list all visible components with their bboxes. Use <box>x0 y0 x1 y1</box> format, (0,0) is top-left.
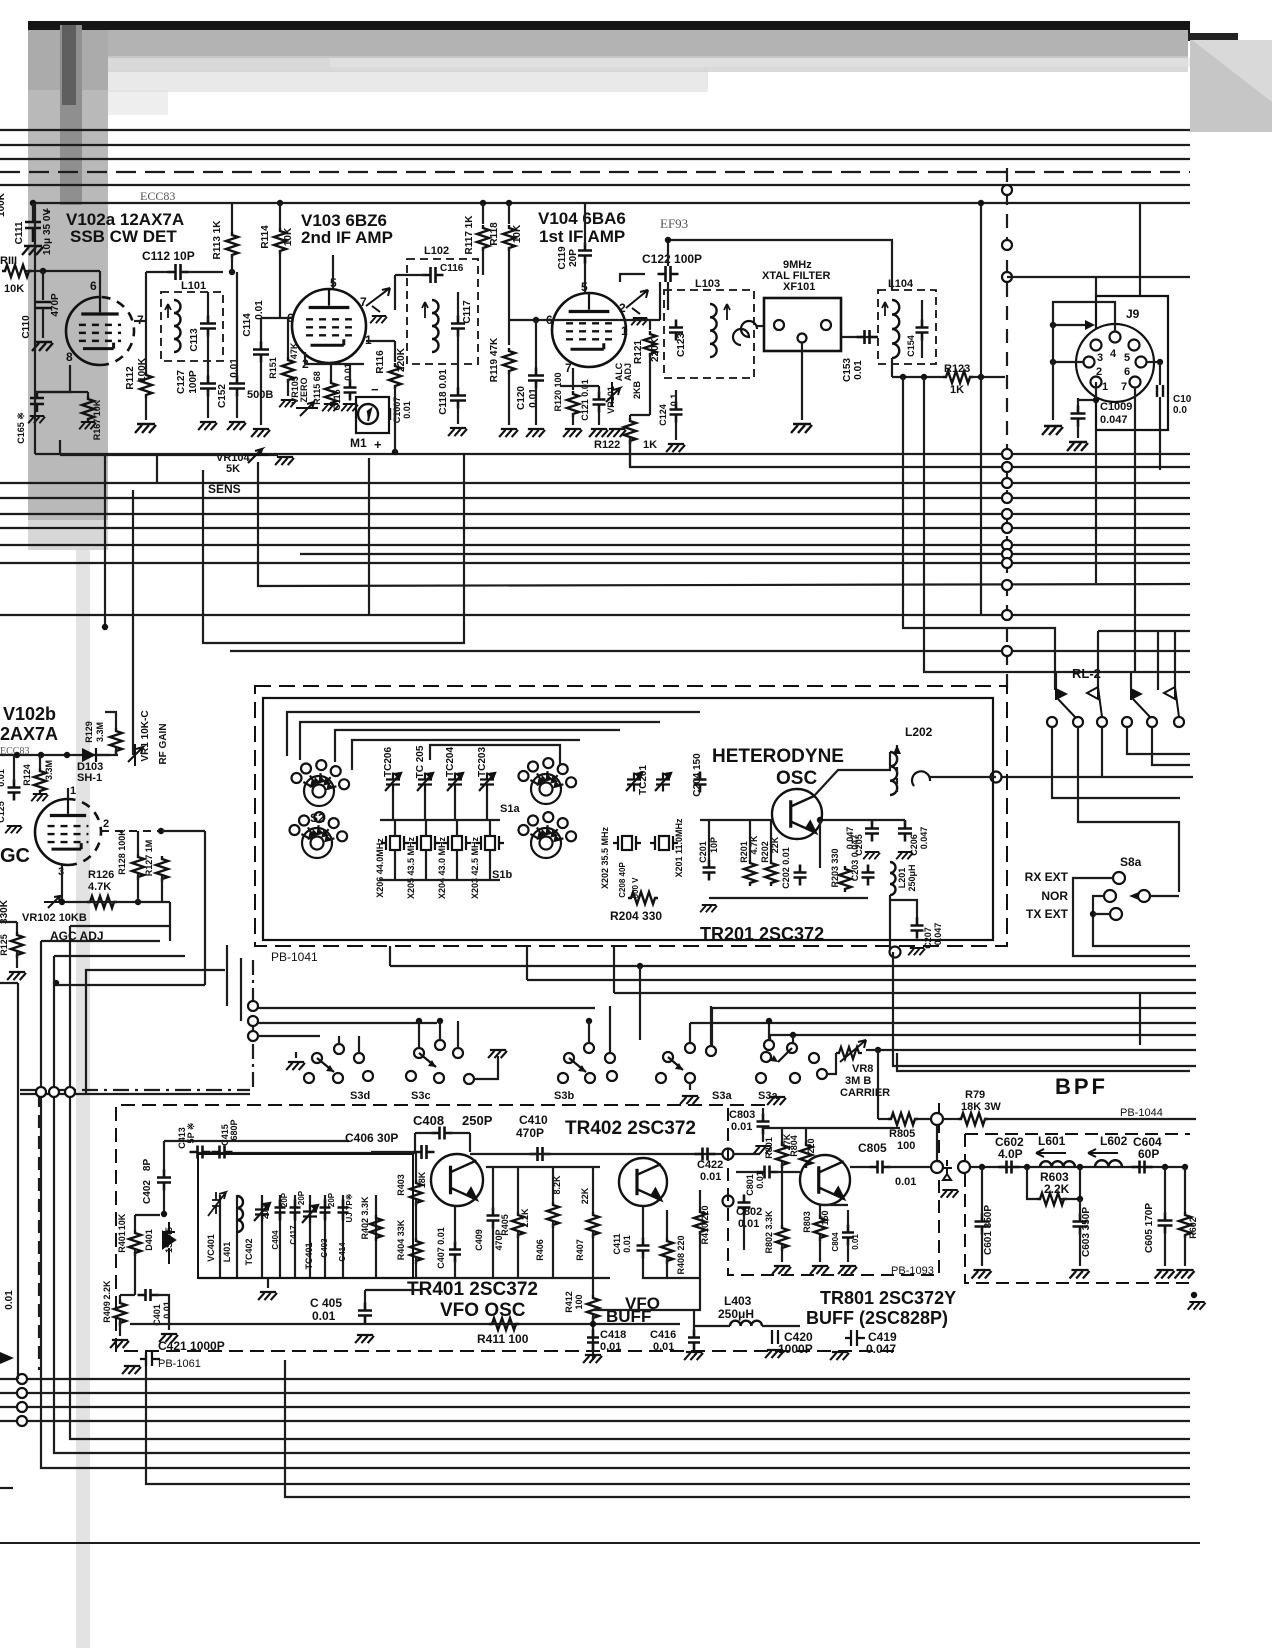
coil L102 dashed box <box>407 259 478 364</box>
node bus x1007 y190 <box>1002 185 1012 195</box>
xtal pin gnd <box>798 334 807 343</box>
svg-text:R201: R201 <box>739 841 749 863</box>
switch S3e contact <box>787 1043 797 1053</box>
wire TR201 base <box>700 819 772 821</box>
junction x56 <box>53 980 59 986</box>
svg-text:R129: R129 <box>84 721 94 743</box>
switch S3b contact <box>584 1043 594 1053</box>
svg-text:C202 0.01: C202 0.01 <box>781 847 791 889</box>
junction S3b <box>586 1018 592 1024</box>
svg-text:0.01: 0.01 <box>622 1235 632 1253</box>
scan artifact: top gray band <box>28 30 1188 58</box>
wire <box>981 1167 983 1216</box>
node bus x1007 y277 <box>1002 272 1012 282</box>
resistor R411 <box>489 1318 519 1330</box>
wire bus y1439 <box>70 1094 1190 1439</box>
wire pin6 <box>261 317 292 319</box>
capacitor C123 <box>669 320 683 341</box>
node bus x1007 y554 <box>1002 549 1012 559</box>
wire <box>592 1167 594 1212</box>
PB-1041 dashed box <box>255 686 1007 946</box>
resistor R407 <box>587 1212 599 1238</box>
wire <box>805 1128 807 1142</box>
svg-text:C115: C115 <box>332 389 342 410</box>
ground C405 <box>355 1335 374 1343</box>
wire <box>1079 1232 1081 1266</box>
wire C154 top <box>921 300 923 322</box>
svg-text:R118: R118 <box>489 222 500 246</box>
wire R79 out <box>984 1118 1196 1120</box>
svg-text:0.01: 0.01 <box>851 1234 860 1250</box>
wire J9 pin2 <box>1053 361 1084 363</box>
svg-text:1: 1 <box>621 324 628 338</box>
wire y1071 <box>897 1053 1190 1071</box>
resistor R118 <box>503 225 515 251</box>
wire <box>1184 1234 1186 1266</box>
capacitor C802 <box>738 1195 751 1216</box>
wire <box>454 1260 456 1278</box>
svg-text:100: 100 <box>897 1140 915 1152</box>
ground C803 <box>754 1146 772 1154</box>
junction R603 <box>1077 1196 1083 1202</box>
svg-text:TC402: TC402 <box>244 1238 254 1265</box>
svg-text:R116: R116 <box>375 350 386 374</box>
wire R112 bot <box>145 398 147 420</box>
wire trim down <box>424 791 426 820</box>
trimmer TC206 <box>385 773 401 792</box>
capacitor C421 <box>140 1352 160 1366</box>
wire y1090 dashdot <box>20 1089 250 1091</box>
wire <box>694 1325 730 1327</box>
wire vfo bottom rail <box>198 1277 610 1279</box>
capacitor C604 <box>1132 1161 1153 1174</box>
wire stub <box>0 982 18 984</box>
trimmer TC401 <box>302 1205 318 1224</box>
svg-text:2: 2 <box>619 301 626 315</box>
svg-text:20P: 20P <box>327 1192 336 1207</box>
capacitor C201 <box>703 860 716 881</box>
resistor R805 <box>888 1113 918 1125</box>
svg-text:250μH: 250μH <box>907 864 917 891</box>
svg-text:C112 10P: C112 10P <box>142 249 195 263</box>
wire cluster <box>36 391 88 393</box>
svg-text:4: 4 <box>1110 348 1117 360</box>
wire C118 top <box>457 364 459 390</box>
wire pin2 solid <box>161 830 205 832</box>
svg-text:VR1 10K-C: VR1 10K-C <box>140 710 151 761</box>
node S3 bus y1006 <box>248 1001 258 1011</box>
wire bias top <box>770 820 772 860</box>
resistor R129 <box>110 728 122 754</box>
wire S3 y1036 <box>258 1035 320 1037</box>
capacitor C115 <box>344 380 357 401</box>
trimmer TC204 <box>447 773 463 792</box>
node bus x1007 y483 <box>1002 478 1012 488</box>
wire C113 top <box>207 292 209 318</box>
tube V102a <box>66 297 134 365</box>
resistor R151 <box>282 357 294 383</box>
svg-text:TC204: TC204 <box>445 747 456 777</box>
crystal X206 <box>381 836 409 850</box>
resistor R116 <box>389 363 401 389</box>
svg-text:C416: C416 <box>650 1329 676 1341</box>
svg-text:PB-1093: PB-1093 <box>891 1265 934 1277</box>
wire trim down <box>392 791 394 820</box>
junction pin6 <box>1157 359 1163 365</box>
wire <box>819 820 821 868</box>
svg-text:0.01: 0.01 <box>528 388 539 408</box>
wire wiper <box>1150 895 1179 897</box>
ground C420 <box>765 1350 784 1358</box>
svg-text:NOR: NOR <box>1041 889 1068 903</box>
svg-text:R202: R202 <box>760 841 770 863</box>
svg-text:C417: C417 <box>289 1225 298 1245</box>
svg-text:HETERODYNE: HETERODYNE <box>712 746 844 767</box>
relay RL-2 contact <box>1122 717 1132 727</box>
resistor R125 <box>11 932 23 958</box>
ground R119 <box>499 429 518 437</box>
switch S3b contact <box>607 1071 617 1081</box>
wire <box>762 1108 764 1116</box>
wire v54 <box>53 956 55 1090</box>
svg-text:R408 220: R408 220 <box>676 1235 686 1274</box>
wire R403 bot <box>415 1200 417 1240</box>
arrow L104 <box>882 302 888 316</box>
trimmer TC201 <box>626 773 642 792</box>
resistor R406 <box>547 1202 559 1228</box>
capacitor C801 <box>757 1166 778 1179</box>
relay RL-2 contact <box>1047 717 1057 727</box>
svg-text:470P: 470P <box>50 293 61 317</box>
resistor R119 <box>503 348 515 374</box>
capacitor C122 <box>658 266 679 282</box>
relay RL-2 contact <box>1174 717 1184 727</box>
wire C121 bot <box>598 410 600 425</box>
wire <box>1139 993 1141 1045</box>
switch S3d contact <box>312 1053 322 1063</box>
svg-text:S3c: S3c <box>411 1090 431 1102</box>
svg-text:V104 6BA6: V104 6BA6 <box>538 209 626 228</box>
wire y1050 <box>878 1049 1196 1051</box>
node bus x1007 y498 <box>1002 493 1012 503</box>
grid arrow V103 <box>366 288 390 312</box>
svg-text:R406: R406 <box>535 1239 545 1261</box>
wire <box>733 1153 760 1155</box>
wire <box>1164 1231 1166 1266</box>
node bus x1007 y514 <box>1002 509 1012 519</box>
wire v241 <box>240 958 242 1021</box>
wire stub left <box>0 1487 13 1489</box>
wire <box>666 1210 668 1238</box>
wire sens stair y585 <box>258 462 1190 586</box>
wire v227 <box>226 945 228 1006</box>
switch S3c contact <box>406 1071 416 1081</box>
wire <box>371 1151 415 1153</box>
wire <box>134 1250 136 1295</box>
resistor R111 <box>2 265 32 277</box>
wire <box>338 1036 340 1044</box>
wire C206 top <box>904 820 906 824</box>
wire <box>0 921 17 923</box>
svg-text:100K: 100K <box>0 192 7 217</box>
crystal X204 <box>443 836 471 850</box>
wire pin6 <box>99 271 101 297</box>
wire agc stair3 <box>54 955 185 957</box>
svg-text:3.3M: 3.3M <box>44 760 54 780</box>
wire R116 top <box>394 341 396 362</box>
wire y1066 <box>893 952 1196 1066</box>
wire C125 top <box>13 755 15 782</box>
svg-text:1st IF AMP: 1st IF AMP <box>539 227 625 246</box>
switch contact <box>809 1053 819 1063</box>
junction C111 top <box>30 200 36 206</box>
svg-text:BUFF (2SC828P): BUFF (2SC828P) <box>806 1308 948 1328</box>
svg-text:C111: C111 <box>14 221 25 244</box>
junction R114 <box>277 200 283 206</box>
connector J9 pin <box>1130 377 1141 388</box>
svg-text:3: 3 <box>1097 352 1103 364</box>
wire <box>149 925 151 927</box>
wire bus y454 <box>35 453 1190 455</box>
wire J9 pin4 <box>1053 302 1115 332</box>
wire relay c3 <box>1101 727 1103 777</box>
capacitor C406 <box>414 1145 435 1159</box>
capacitor C121 <box>593 392 606 413</box>
svg-text:1S145: 1S145 <box>164 1227 174 1253</box>
wire L201 down <box>889 895 891 952</box>
switch S8a RX contact <box>1113 872 1125 884</box>
svg-text:C802: C802 <box>736 1206 762 1218</box>
svg-text:R402 3.3K: R402 3.3K <box>360 1196 370 1240</box>
wire comp bottom <box>375 1195 377 1278</box>
wire relay c2 to S8a <box>1078 727 1179 892</box>
arrow L202 <box>893 745 901 754</box>
capacitor C401 <box>138 1289 159 1301</box>
capacitor C165 <box>30 392 44 412</box>
junction C601 <box>979 1164 985 1170</box>
wire C114 bot <box>260 360 262 425</box>
wire <box>847 1243 849 1262</box>
svg-text:5K: 5K <box>226 463 240 475</box>
svg-text:S8a: S8a <box>1120 855 1142 869</box>
svg-text:C119: C119 <box>557 246 568 270</box>
wire pin3 down <box>61 865 63 902</box>
node x22 y1407 <box>17 1402 27 1412</box>
wire <box>847 1210 849 1227</box>
switch S3a contact <box>656 1073 666 1083</box>
svg-text:TR201 2SC372: TR201 2SC372 <box>700 924 824 944</box>
wire C112 left <box>146 271 170 273</box>
wire bus y1407 <box>0 1406 1190 1408</box>
svg-text:R803: R803 <box>802 1211 812 1233</box>
svg-text:AGC ADJ: AGC ADJ <box>50 929 104 943</box>
ground C115 <box>341 404 358 411</box>
svg-text:470P: 470P <box>516 1126 544 1140</box>
node L201 out <box>890 947 901 958</box>
BPF dashed box <box>965 1134 1190 1283</box>
ground C401 <box>159 1334 178 1342</box>
node S3 bus y1021 <box>248 1016 258 1026</box>
wire xtal bot <box>425 850 427 880</box>
svg-text:C152: C152 <box>217 384 228 408</box>
wire C110 lead <box>42 271 44 300</box>
ground R120 <box>563 429 582 437</box>
resistor R403 <box>410 1180 422 1206</box>
junction y966 <box>637 963 643 969</box>
wire y672 <box>1135 671 1190 673</box>
arrow L101 <box>165 304 171 318</box>
svg-text:10P: 10P <box>709 837 719 853</box>
pot VR102 <box>44 896 66 908</box>
wire <box>642 1206 644 1240</box>
junction <box>102 624 108 630</box>
svg-text:L202: L202 <box>905 725 933 739</box>
wire C1009 top <box>1077 398 1079 410</box>
wire pin2 <box>304 352 306 364</box>
switch S3e contact <box>764 1040 774 1050</box>
junction C122 top <box>665 237 671 243</box>
wire <box>743 1213 745 1250</box>
capacitor C152 <box>229 376 245 397</box>
svg-text:C114: C114 <box>242 313 253 337</box>
svg-text:1K: 1K <box>950 384 964 396</box>
capacitor C114 <box>253 342 269 363</box>
capacitor C602 <box>999 1161 1020 1174</box>
junction C120 <box>533 317 539 323</box>
svg-text:2nd IF AMP: 2nd IF AMP <box>301 228 393 247</box>
pot VR105 <box>296 402 318 416</box>
resistor R402 <box>370 1215 382 1241</box>
svg-text:C1007: C1007 <box>392 397 402 424</box>
wire R114 bot <box>279 250 281 318</box>
wire xtal bot <box>456 850 458 880</box>
wire comp bottom <box>236 1195 238 1278</box>
resistor R115 <box>325 380 337 406</box>
coil L202b <box>912 771 930 786</box>
wire <box>850 1166 870 1168</box>
wire bus y563 <box>0 562 1190 564</box>
wire dashed vertical bus <box>1006 168 1008 688</box>
resistor R203 <box>839 866 851 892</box>
svg-text:18K: 18K <box>417 1171 427 1188</box>
coil L101 dashed box <box>161 292 223 361</box>
svg-text:D401: D401 <box>144 1229 154 1251</box>
wire xtal out <box>841 336 878 338</box>
svg-text:C208 40P: C208 40P <box>618 862 627 898</box>
resistor R405 <box>512 1212 524 1238</box>
node bus x1007 y528 <box>1002 523 1012 533</box>
capacitor C803 <box>757 1114 770 1135</box>
wire bus y1468 <box>41 1094 1190 1468</box>
wire v981 <box>980 203 982 615</box>
switch S3b rotor <box>569 1058 586 1072</box>
relay arm 1 <box>1058 699 1076 718</box>
junction pin3 <box>59 899 65 905</box>
svg-text:X201 11.0MHz: X201 11.0MHz <box>674 818 684 878</box>
wire sens v <box>156 455 158 483</box>
wire bus y159 <box>0 158 1190 160</box>
svg-text:TR402 2SC372: TR402 2SC372 <box>565 1118 696 1139</box>
svg-text:+: + <box>44 206 50 218</box>
junction R412 <box>590 1321 596 1327</box>
ground C110 <box>32 342 53 351</box>
crystal filter XF101 box <box>764 298 841 351</box>
wire bus y498 <box>0 497 1190 499</box>
coil L401 <box>237 1196 243 1232</box>
wire <box>119 1320 121 1336</box>
wire bus y554 <box>300 553 1190 555</box>
tube V104 <box>552 293 626 367</box>
svg-text:C408: C408 <box>413 1113 444 1128</box>
capacitor C202 <box>794 865 807 886</box>
ground C127 <box>198 422 217 430</box>
junction S3e <box>790 1032 796 1038</box>
wire C119 top <box>584 203 586 245</box>
svg-text:L103: L103 <box>695 278 720 290</box>
junction x981 top <box>978 200 984 206</box>
wire C408 r <box>450 1132 470 1134</box>
switch S3d contact <box>304 1073 314 1083</box>
svg-text:R151: R151 <box>268 357 278 379</box>
svg-text:L201: L201 <box>897 868 907 889</box>
switch S3b contact <box>564 1053 574 1063</box>
wire <box>820 1204 848 1206</box>
pot VR1 <box>128 744 143 766</box>
wire C409 top <box>492 1167 494 1210</box>
wire C118 bot <box>457 406 459 424</box>
svg-text:1: 1 <box>1102 381 1108 393</box>
wire R129 bot <box>115 748 117 755</box>
wire C112 right <box>186 271 223 273</box>
svg-text:R411 100: R411 100 <box>477 1332 529 1346</box>
wire bus y1453 <box>54 1094 1190 1453</box>
resistor R121 <box>644 331 656 357</box>
svg-text:5P ※: 5P ※ <box>186 1123 196 1144</box>
arrow L102 <box>422 302 428 318</box>
capacitor C1007 <box>390 408 395 420</box>
svg-text:C120: C120 <box>516 386 527 410</box>
capacitor C805 <box>870 1161 891 1174</box>
wire C114 top <box>260 318 262 344</box>
svg-text:R805: R805 <box>889 1128 915 1140</box>
connector J9 pin <box>1110 332 1121 343</box>
svg-text:SENS: SENS <box>208 482 241 496</box>
wire loop y643 <box>203 455 464 643</box>
wire C1009 link <box>1078 399 1096 401</box>
junction R602 <box>1182 1164 1188 1170</box>
ground C1009 <box>1067 442 1088 451</box>
wire C154 bot <box>921 338 923 358</box>
wire C1009 bot <box>1077 424 1079 438</box>
svg-text:C122 100P: C122 100P <box>642 252 702 266</box>
ground R115 <box>322 404 339 411</box>
wire <box>156 1295 169 1330</box>
switch S3c contact <box>453 1048 463 1058</box>
wire R125 top <box>16 922 18 932</box>
wire S3 y1008 right <box>712 1007 1196 1009</box>
junction L601 in <box>1024 1164 1030 1170</box>
wire <box>781 1172 783 1225</box>
svg-text:VR8: VR8 <box>852 1063 873 1075</box>
capacitor C113 <box>200 316 216 337</box>
svg-text:TR801 2SC372Y: TR801 2SC372Y <box>820 1288 956 1308</box>
ground C124 <box>666 444 685 452</box>
xtal pin in <box>774 320 784 330</box>
wire R603 r <box>1061 1167 1080 1199</box>
node y1154 <box>723 1149 734 1160</box>
svg-text:0.01: 0.01 <box>755 1171 765 1189</box>
wire J9 top <box>1095 278 1097 296</box>
